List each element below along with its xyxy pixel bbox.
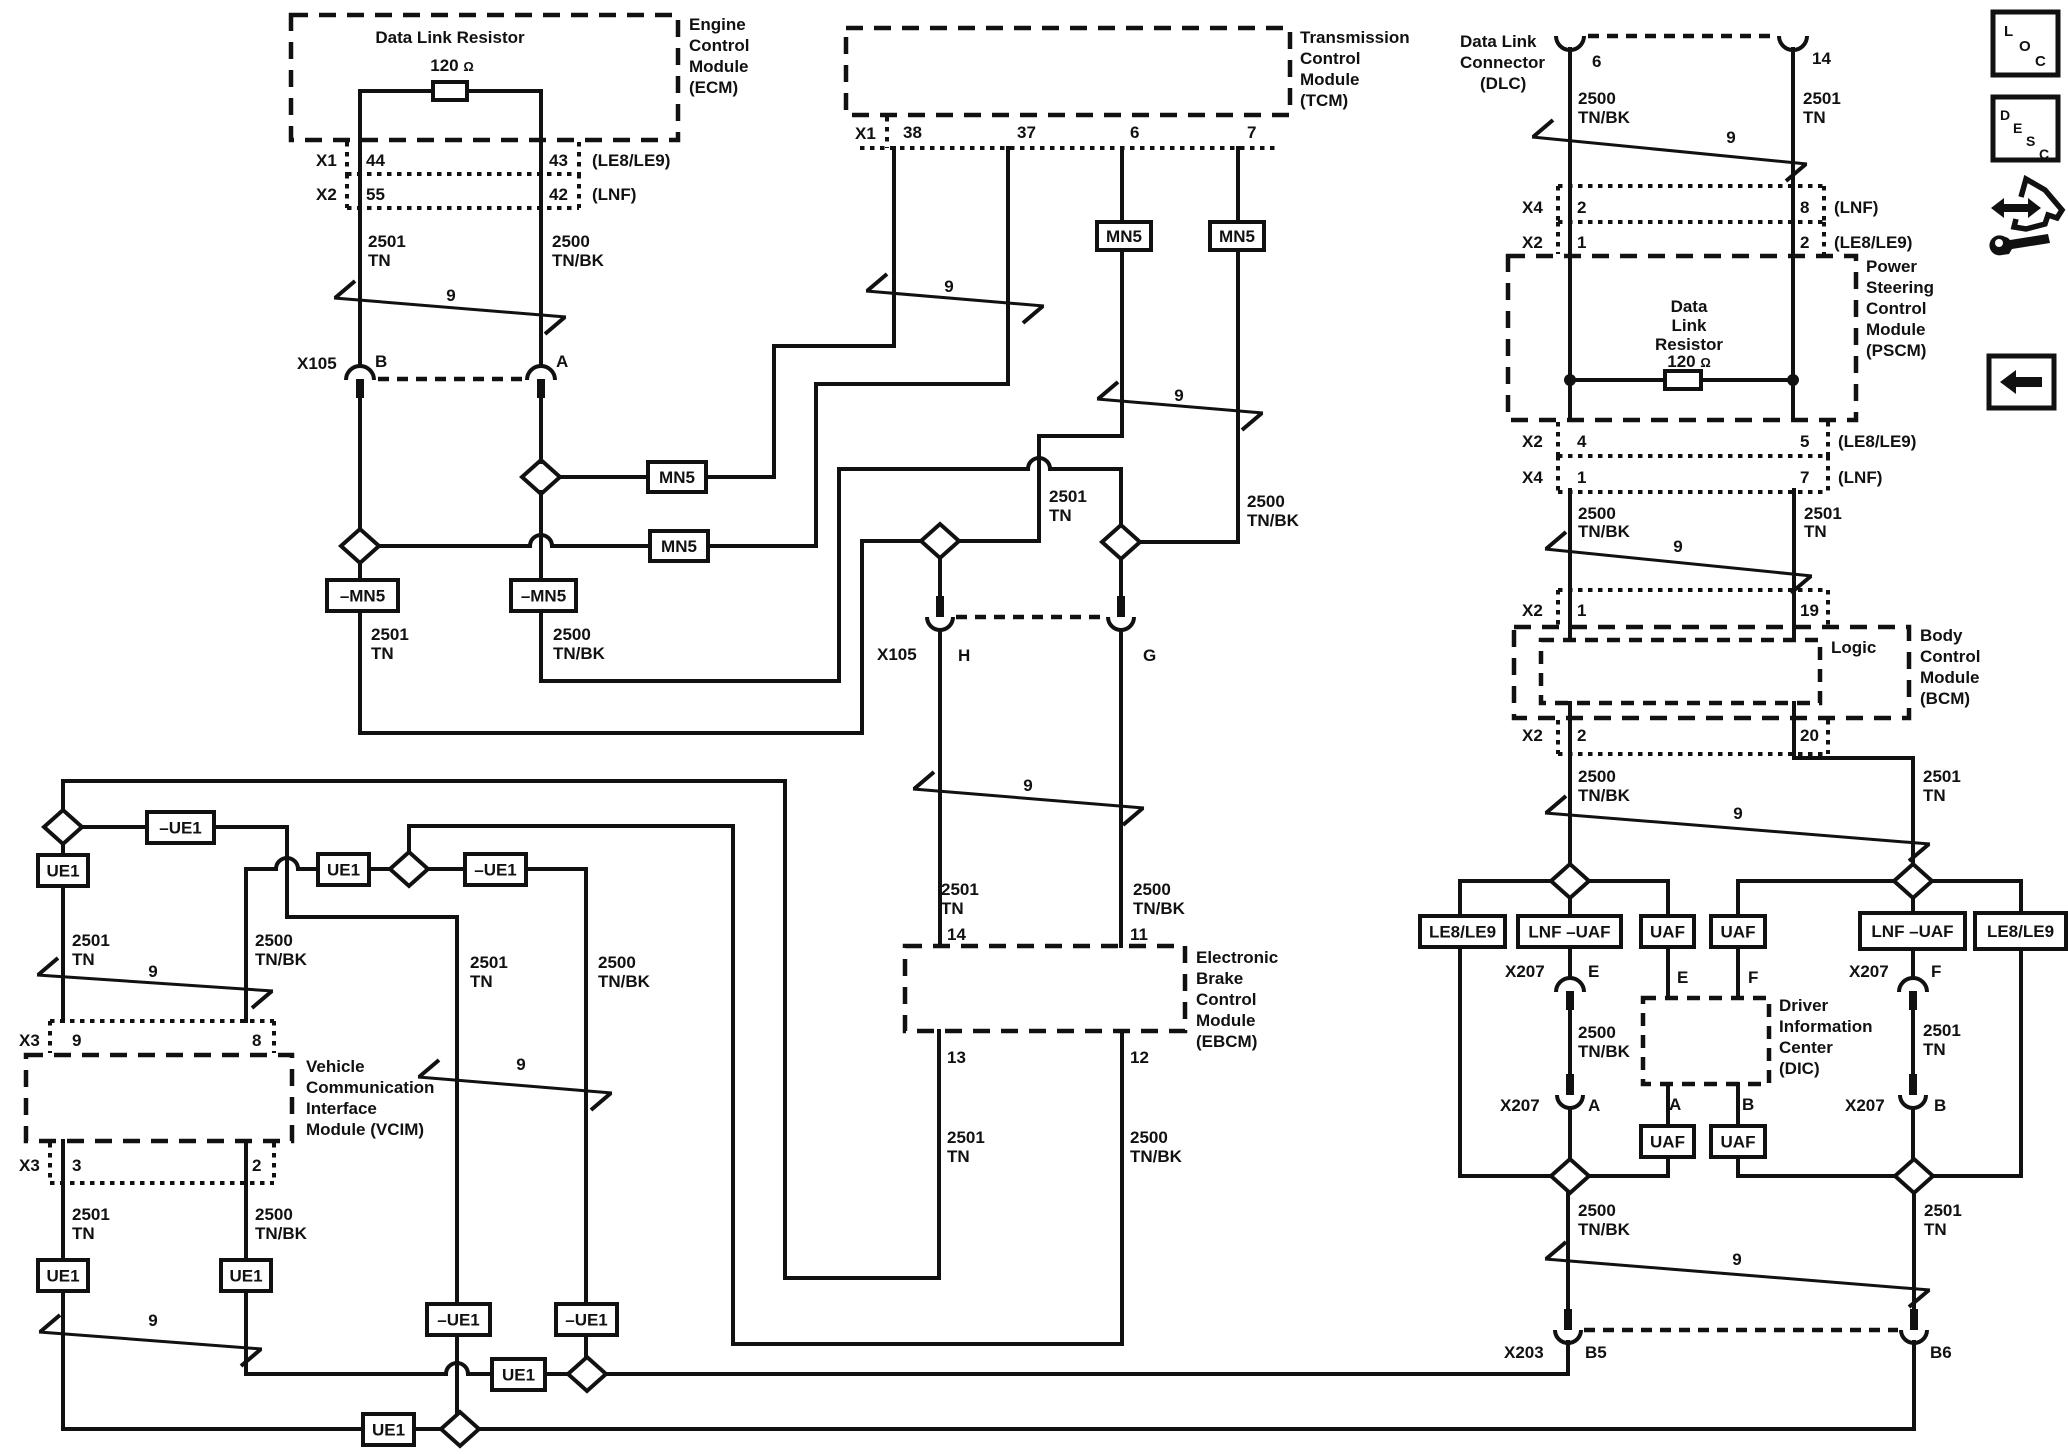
svg-text:UE1: UE1 — [229, 1267, 262, 1286]
wire down to UAF2 — [1736, 881, 1740, 916]
svg-text:Power: Power — [1866, 257, 1917, 276]
wire X203 B5 up to DIC splice — [1566, 1193, 1570, 1309]
label 2501 TN (BCM 19 wire) — [1804, 504, 1842, 541]
wire 2501 TN bottom jog y733 — [360, 731, 862, 735]
splice diamond x63 (2501 TN / UE1) — [44, 810, 82, 844]
svg-text:9: 9 — [148, 962, 157, 981]
svg-text:2500: 2500 — [1578, 1023, 1616, 1042]
svg-text:2500: 2500 — [1247, 492, 1285, 511]
harness count 9 (VCIM top) — [37, 958, 273, 1008]
junction dot right (PSCM resistor) — [1787, 374, 1799, 386]
inline connector X203 pin B6 — [1901, 1309, 1927, 1343]
svg-text:2501: 2501 — [368, 232, 406, 251]
inline connector X203 pin B5 — [1555, 1309, 1581, 1343]
connector pin row VCIM X3 9/8 — [50, 1019, 274, 1023]
svg-text:X105: X105 — [297, 354, 337, 373]
inline connector DLC pin 14 — [1779, 36, 1807, 50]
svg-text:Link: Link — [1672, 316, 1707, 335]
wire 2500 TN/BK jog y681 — [541, 679, 839, 683]
bus wire 2500 TN/BK continues to B5 — [606, 1372, 1568, 1376]
wire riser to upper-right diamond (2501 TN) — [1911, 758, 1915, 864]
svg-text:B6: B6 — [1930, 1343, 1952, 1362]
wire VCIM 3 down to bus2 — [61, 1291, 65, 1429]
svg-text:8: 8 — [252, 1031, 261, 1050]
svg-text:Control: Control — [689, 36, 749, 55]
svg-text:9: 9 — [1174, 386, 1183, 405]
svg-text:2500: 2500 — [1133, 880, 1171, 899]
net label box MN5 (ECM B branch) — [650, 531, 708, 561]
svg-text:TN/BK: TN/BK — [1133, 899, 1186, 918]
svg-text:–UE1: –UE1 — [565, 1311, 608, 1330]
svg-text:X1: X1 — [316, 151, 337, 170]
icon box back-arrow — [1989, 356, 2054, 408]
label 2501 TN (x457) — [470, 953, 508, 991]
wire -UE1 to bus2 splice — [455, 1335, 459, 1414]
net label box LNF -UAF (right) — [1860, 913, 1965, 949]
label EBCM name — [1196, 948, 1278, 1051]
harness count 9 (EBCM wires) — [913, 772, 1144, 825]
net label box -MN5 (2500 TN/BK wire) — [511, 580, 576, 611]
wire corner to upper-left diamond — [1460, 879, 1551, 883]
label PSCM name — [1866, 257, 1934, 360]
inline connector X207 pin F — [1899, 978, 1927, 1010]
label 2500 TN/BK (TCM7 wire) — [1247, 492, 1300, 530]
svg-text:2500: 2500 — [255, 931, 293, 950]
inline connector X207 pin A — [1557, 1074, 1583, 1108]
svg-text:TN/BK: TN/BK — [1130, 1147, 1183, 1166]
svg-text:9: 9 — [148, 1311, 157, 1330]
wire upper-left diamond to UAF1 — [1589, 879, 1668, 883]
svg-text:Module (VCIM): Module (VCIM) — [306, 1120, 424, 1139]
module box ECM (Engine Control Module) — [291, 15, 678, 140]
svg-text:6: 6 — [1130, 123, 1139, 142]
label BCM name — [1920, 626, 1980, 708]
wire splice to -UE1 box — [82, 825, 147, 829]
svg-text:–UE1: –UE1 — [474, 861, 517, 880]
svg-text:Body: Body — [1920, 626, 1963, 645]
wire UAF box3 to bus — [1666, 1157, 1670, 1176]
module box TCM (Transmission Control Module) — [846, 28, 1290, 115]
label 2500 TN/BK (BCM 1 wire) — [1578, 504, 1631, 541]
wire -UE1 to bus1 splice — [584, 1335, 588, 1357]
inline connector X105 pin B — [346, 366, 374, 398]
svg-text:Control: Control — [1196, 990, 1256, 1009]
label ECM name — [689, 15, 749, 97]
wire BCM pin 20 jog — [1794, 756, 1913, 760]
wire upper-right diamond to corner — [1932, 879, 2021, 883]
wire ECM pin 43/42 vertical (2500 TN/BK) — [539, 91, 543, 366]
splice diamond on bus2 — [441, 1412, 479, 1446]
svg-text:9: 9 — [1726, 128, 1735, 147]
label 2500 TN/BK (B5 wire) — [1578, 1201, 1631, 1239]
module box DIC (Driver Information Center) — [1643, 998, 1769, 1084]
svg-text:Brake: Brake — [1196, 969, 1243, 988]
svg-text:1: 1 — [1577, 468, 1586, 487]
wire ECM B diamond through -MN5 down — [358, 563, 362, 733]
svg-text:(LE8/LE9): (LE8/LE9) — [1838, 432, 1916, 451]
wire jog y346 to TCM pin 38 — [774, 344, 894, 348]
wire ECM A arc to diamond — [539, 396, 543, 462]
module box EBCM (Electronic Brake Control Module) — [905, 946, 1185, 1031]
net label box UE1 (bus1) — [492, 1359, 545, 1390]
label Data Link Resistor (PSCM) — [1655, 297, 1723, 354]
svg-text:S: S — [2026, 133, 2035, 149]
svg-text:TN/BK: TN/BK — [255, 950, 308, 969]
svg-text:TN: TN — [941, 899, 964, 918]
svg-text:Steering: Steering — [1866, 278, 1934, 297]
svg-text:X1: X1 — [855, 124, 876, 143]
connector pin row TCM X1 38/37/6/7 — [860, 146, 1278, 150]
splice diamond above X105 H (2501 TN) — [921, 524, 959, 558]
svg-text:Module: Module — [1866, 320, 1926, 339]
svg-text:UE1: UE1 — [372, 1421, 405, 1440]
svg-text:Data: Data — [1671, 297, 1708, 316]
svg-text:F: F — [1748, 968, 1758, 987]
net label box UE1 (y869) — [318, 854, 369, 885]
wire resistor right lead — [467, 89, 541, 93]
svg-text:A: A — [1588, 1096, 1600, 1115]
svg-text:X105: X105 — [877, 645, 917, 664]
wire riser x774 (2500 TN/BK) — [772, 346, 776, 477]
svg-text:20: 20 — [1800, 726, 1819, 745]
wire TCM pin 37 (2501 TN) — [1006, 148, 1010, 384]
svg-text:TN/BK: TN/BK — [1578, 522, 1631, 541]
svg-text:2: 2 — [1577, 726, 1586, 745]
svg-text:2501: 2501 — [72, 1205, 110, 1224]
label 2500 TN/BK (ECM right wire) — [552, 232, 605, 270]
wire DLC 6 down (2500 TN/BK) — [1568, 49, 1572, 256]
harness count 9 (PSCM to BCM) — [1545, 532, 1812, 593]
svg-text:L: L — [2004, 23, 2013, 40]
connector mating line X203 B5-B6 — [1584, 1328, 1898, 1333]
label 2500 TN/BK (X207 EA) — [1578, 1023, 1631, 1061]
label 2501 TN (VCIM 9) — [72, 931, 110, 969]
connector pin row VCIM X3 3/2 — [50, 1181, 274, 1185]
label 2501 TN (below -MN5) — [371, 625, 409, 663]
inline connector X105 pin H — [927, 596, 953, 630]
svg-text:TN/BK: TN/BK — [598, 972, 651, 991]
wire PSCM right through — [1791, 256, 1795, 420]
svg-text:TN: TN — [1923, 1040, 1946, 1059]
svg-text:–UE1: –UE1 — [437, 1311, 480, 1330]
svg-text:9: 9 — [1733, 804, 1742, 823]
svg-text:C: C — [2039, 146, 2049, 162]
resistor R2 120 ohm (PSCM data link resistor) — [1665, 371, 1701, 389]
wire BCM pin 2 to upper-left diamond (2500 TN/BK) — [1568, 754, 1572, 864]
svg-text:Module: Module — [689, 57, 749, 76]
svg-text:9: 9 — [516, 1055, 525, 1074]
svg-text:2500: 2500 — [255, 1205, 293, 1224]
net label box LE8/LE9 (right) — [1975, 913, 2066, 949]
wire right diamond to LE8/LE9 leg — [1933, 1174, 2021, 1178]
wire TCM6 branch riser x1039 (2501 TN) — [1037, 436, 1041, 541]
svg-text:UAF: UAF — [1650, 1133, 1685, 1152]
svg-text:2501: 2501 — [1803, 89, 1841, 108]
svg-text:E: E — [1588, 962, 1599, 981]
svg-text:19: 19 — [1800, 601, 1819, 620]
svg-text:37: 37 — [1017, 123, 1036, 142]
svg-text:2501: 2501 — [1923, 767, 1961, 786]
svg-text:O: O — [2019, 38, 2031, 55]
wire x63 to VCIM X3 pin 9 — [61, 886, 65, 1021]
svg-text:6: 6 — [1592, 52, 1601, 71]
svg-text:X2: X2 — [316, 185, 337, 204]
net label box -MN5 (2501 TN wire) — [327, 580, 398, 611]
wire down to LE8/LE9 box1 — [1458, 881, 1462, 916]
svg-text:2501: 2501 — [1049, 487, 1087, 506]
harness count 9 (X203 wires) — [1545, 1242, 1930, 1307]
label 2500 TN/BK (EBCM 12 wire) — [1130, 1128, 1183, 1166]
svg-text:2501: 2501 — [1924, 1201, 1962, 1220]
svg-text:D: D — [2000, 107, 2010, 123]
svg-text:TN: TN — [72, 950, 95, 969]
connector mating line X105 H-G — [956, 615, 1105, 620]
svg-text:B: B — [1934, 1096, 1946, 1115]
connector pin row DLC X4 2/8 — [1558, 184, 1824, 188]
wire LNF-UAF box to X207 E — [1568, 947, 1572, 978]
wire X207 B to splice — [1911, 1108, 1915, 1159]
wire bus1 riser to X203 B5 — [1566, 1342, 1570, 1374]
svg-text:E: E — [1677, 968, 1688, 987]
svg-text:7: 7 — [1247, 123, 1256, 142]
icon box DESC — [1993, 97, 2058, 162]
svg-text:2: 2 — [1577, 198, 1586, 217]
splice diamond above X105 G (2500 TN/BK) — [1102, 525, 1140, 559]
splice diamond on ECM B wire (2501 TN) — [341, 529, 379, 563]
inline connector X105 pin G — [1108, 596, 1134, 630]
wire -UE1 to riser x287 — [214, 825, 287, 829]
svg-text:Data Link Resistor: Data Link Resistor — [375, 28, 525, 47]
svg-text:MN5: MN5 — [661, 537, 697, 556]
svg-text:X2: X2 — [1522, 601, 1543, 620]
svg-text:44: 44 — [366, 151, 385, 170]
wire down to G splice diamond — [1119, 469, 1123, 525]
wire bus2 riser to X203 B6 — [1912, 1342, 1916, 1429]
wire diamond409 up to 2500 trunk — [407, 826, 411, 852]
svg-text:(DLC): (DLC) — [1480, 74, 1526, 93]
wire diamond to LNF-UAF box2 — [1911, 898, 1915, 913]
wire VCIM X3 pin 2 (2500 TN/BK) — [244, 1141, 248, 1260]
svg-text:X3: X3 — [19, 1156, 40, 1175]
module box BCM (Body Control Module) — [1514, 627, 1909, 718]
net label box MN5 (TCM pin 6 wire) — [1097, 222, 1151, 250]
inner box BCM Logic — [1541, 640, 1820, 703]
bus wire 2501 TN continues to B6 — [479, 1427, 1914, 1431]
icon double arrow with wrench — [1989, 179, 2062, 255]
svg-text:(DIC): (DIC) — [1779, 1059, 1820, 1078]
wire DLC6 chain into BCM pin 1 — [1568, 490, 1572, 640]
wire LE8/LE9 leg to left diamond — [1460, 1174, 1551, 1178]
svg-text:TN/BK: TN/BK — [1247, 511, 1300, 530]
wire VCIM X3 pin 3 (2501 TN) — [61, 1141, 65, 1260]
label 2501 TN (BCM 20 wire) — [1923, 767, 1961, 805]
wire LE8/LE9 (LE8/LE9 box1) leg — [1458, 950, 1462, 1176]
svg-text:42: 42 — [549, 185, 568, 204]
svg-text:Interface: Interface — [306, 1099, 377, 1118]
wire x246 to VCIM X3 pin 8 (2500 TN/BK) — [244, 869, 248, 1021]
wire resistor left lead (PSCM) — [1570, 378, 1665, 382]
svg-text:TN: TN — [72, 1224, 95, 1243]
svg-text:B: B — [375, 352, 387, 371]
svg-text:UE1: UE1 — [327, 861, 360, 880]
wire ECM B diamond to MN5 (hop over 2500 wire) — [379, 535, 650, 546]
connector mating line DLC 6-14 — [1588, 34, 1775, 39]
svg-text:–UE1: –UE1 — [159, 819, 202, 838]
svg-text:H: H — [958, 646, 970, 665]
svg-text:Logic: Logic — [1831, 638, 1876, 657]
harness count 9 (TCM 38/37) — [866, 274, 1044, 323]
svg-text:UAF: UAF — [1650, 923, 1685, 942]
svg-text:4: 4 — [1577, 432, 1587, 451]
wire LE8/LE9 (LE8/LE9 box2) leg — [2019, 950, 2023, 1176]
svg-text:Data Link: Data Link — [1460, 32, 1537, 51]
svg-text:MN5: MN5 — [1219, 227, 1255, 246]
connector pin row PSCM X4 1/7 — [1558, 490, 1828, 494]
svg-text:Information: Information — [1779, 1017, 1873, 1036]
module box VCIM (Vehicle Communication Interface Module) — [26, 1055, 292, 1141]
wire X105 H to EBCM pin 14 (2501 TN) — [938, 630, 942, 946]
svg-text:(TCM): (TCM) — [1300, 91, 1348, 110]
svg-text:TN/BK: TN/BK — [553, 644, 606, 663]
svg-text:LE8/LE9: LE8/LE9 — [1987, 922, 2054, 941]
wire MN5 box to riser x816 — [708, 544, 816, 548]
wire 2501 TN trunk top y781 — [63, 779, 785, 783]
wire riser x816 (2501 TN) — [814, 384, 818, 546]
harness count 9 (DLC wires) — [1532, 120, 1807, 181]
svg-text:14: 14 — [947, 925, 966, 944]
wire BCM pin 20 stub upper — [1792, 703, 1796, 749]
svg-text:Driver: Driver — [1779, 996, 1829, 1015]
wire down to LE8/LE9 box2 — [2019, 881, 2023, 913]
label VCIM name — [306, 1057, 434, 1139]
svg-text:2500: 2500 — [1578, 767, 1616, 786]
resistor R1 120 ohm (ECM data link resistor) — [433, 82, 467, 100]
svg-text:38: 38 — [903, 123, 922, 142]
svg-text:9: 9 — [944, 277, 953, 296]
svg-text:TN/BK: TN/BK — [552, 251, 605, 270]
harness count 9 (BCM to DIC) — [1545, 796, 1930, 861]
wire y869 from x246 (hop over x287) — [246, 858, 318, 869]
svg-text:F: F — [1931, 962, 1941, 981]
label 2500 TN/BK (BCM 2 wire) — [1578, 767, 1631, 805]
wire trunk down to UE1 splice — [61, 781, 65, 810]
svg-text:2500: 2500 — [1578, 89, 1616, 108]
svg-text:11: 11 — [1130, 925, 1148, 944]
net label box UAF (DIC pin B) — [1711, 1126, 1765, 1157]
net label box MN5 (TCM pin 7 wire) — [1210, 222, 1264, 250]
svg-text:Control: Control — [1920, 647, 1980, 666]
wire -UE1 to riser x586 — [526, 867, 586, 871]
wire TCM pin 6 (2501 TN) — [1120, 148, 1124, 436]
svg-text:LNF –UAF: LNF –UAF — [1528, 923, 1610, 942]
splice diamond DIC upper right (2501 TN) — [1894, 864, 1932, 898]
svg-text:120 Ω: 120 Ω — [1667, 352, 1711, 371]
wire UAF box4 to bus — [1736, 1157, 1740, 1176]
svg-text:TN: TN — [368, 251, 391, 270]
wire UAF2 to upper-right diamond — [1738, 879, 1894, 883]
harness count 9 (TCM 6/7) — [1097, 382, 1263, 430]
label 2500 TN/BK (VCIM 8) — [255, 931, 308, 969]
svg-text:TN: TN — [371, 644, 394, 663]
wire X105 G to EBCM pin 11 (2500 TN/BK) — [1119, 630, 1123, 946]
svg-text:13: 13 — [947, 1048, 966, 1067]
net label box UAF (DIC pin E) — [1641, 916, 1694, 947]
wire DIC pin B — [1736, 1084, 1740, 1126]
wire resistor left lead — [360, 89, 433, 93]
svg-text:2501: 2501 — [72, 931, 110, 950]
svg-text:UAF: UAF — [1721, 1133, 1756, 1152]
wire DIC pin F — [1736, 947, 1740, 998]
svg-text:A: A — [556, 352, 568, 371]
svg-text:(LNF): (LNF) — [1838, 468, 1882, 487]
wire EBCM 12 jog y1344 — [733, 1342, 1122, 1346]
module box PSCM (Power Steering Control Module) — [1508, 256, 1856, 420]
splice diamond DIC lower left (2500 TN/BK) — [1551, 1159, 1589, 1193]
svg-text:–MN5: –MN5 — [340, 587, 385, 606]
label 2501 TN (x1039 riser) — [1049, 487, 1087, 525]
svg-text:(ECM): (ECM) — [689, 78, 738, 97]
connector pin row ECM X1 44/43 — [347, 172, 579, 176]
wire X203 B6 up to DIC splice — [1912, 1193, 1916, 1309]
svg-text:(LNF): (LNF) — [1834, 198, 1878, 217]
svg-text:X3: X3 — [19, 1031, 40, 1050]
svg-text:TN: TN — [947, 1147, 970, 1166]
wire BCM pin 20 stub — [1792, 749, 1796, 758]
wire UAF-B leg to right diamond — [1738, 1174, 1895, 1178]
wire riser x287 (2501 TN) — [285, 827, 289, 917]
net label box -UE1 (x63 branch) — [147, 812, 214, 843]
inline connector DLC pin 6 — [1556, 36, 1584, 50]
wire down to UAF1 — [1666, 881, 1670, 916]
svg-text:–MN5: –MN5 — [521, 587, 566, 606]
net label box UE1 (x63) — [38, 855, 88, 886]
net label box -UE1 (y869) — [465, 854, 526, 885]
svg-text:X207: X207 — [1505, 962, 1545, 981]
svg-text:G: G — [1143, 646, 1156, 665]
svg-text:2501: 2501 — [470, 953, 508, 972]
svg-text:TN/BK: TN/BK — [255, 1224, 308, 1243]
label 2500 TN/BK (below -MN5) — [553, 625, 606, 663]
svg-text:1: 1 — [1577, 601, 1586, 620]
wire riser x457 (2501 TN) — [455, 917, 459, 1304]
label 2500 TN/BK (VCIM 2) — [255, 1205, 308, 1243]
svg-text:9: 9 — [1732, 1250, 1741, 1269]
net label box UE1 (VCIM 2 wire) — [221, 1260, 271, 1291]
wire X207 E to A — [1568, 1010, 1572, 1074]
label 2500 TN/BK (EBCM 11 wire) — [1133, 880, 1186, 918]
svg-text:B5: B5 — [1585, 1343, 1607, 1362]
svg-text:1: 1 — [1577, 233, 1586, 252]
junction dot left (PSCM resistor) — [1564, 374, 1576, 386]
splice diamond DIC upper left (2500 TN/BK) — [1551, 864, 1589, 898]
splice diamond (409,869) 2500 TN/BK — [390, 852, 428, 886]
bus wire 2500 TN/BK (y1374) VCIM2 to X203 B5 — [246, 1363, 492, 1374]
svg-text:TN: TN — [1804, 522, 1827, 541]
svg-text:Electronic: Electronic — [1196, 948, 1278, 967]
svg-text:2501: 2501 — [1923, 1021, 1961, 1040]
wire TCM pin 7 (2500 TN/BK) — [1236, 148, 1240, 542]
svg-text:Module: Module — [1196, 1011, 1256, 1030]
label 2501 TN (EBCM 14 wire) — [941, 880, 979, 918]
svg-text:Center: Center — [1779, 1038, 1833, 1057]
harness count 9 (VCIM bottom) — [39, 1311, 262, 1366]
wire DIC pin E — [1666, 947, 1670, 998]
harness count 9 (x457/x586 risers) — [418, 1055, 612, 1110]
svg-text:B: B — [1742, 1095, 1754, 1114]
label TCM name — [1300, 28, 1410, 110]
wire jog y384 to TCM pin 37 — [816, 382, 1008, 386]
connector pin row PSCM X2 4/5 — [1558, 454, 1828, 458]
